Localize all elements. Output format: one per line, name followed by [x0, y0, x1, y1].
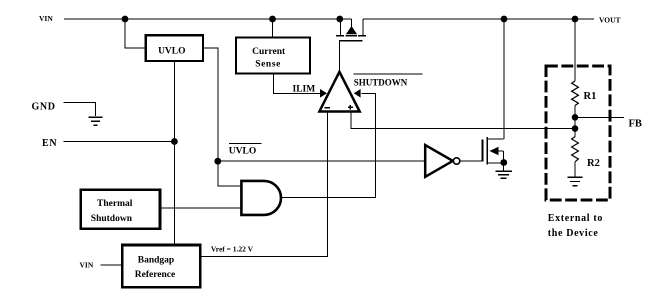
wire Current Sense output ILIM to comparator [274, 74, 321, 94]
svg-text:EN: EN [42, 138, 57, 149]
op-amp U1 current-limit comparator [319, 72, 360, 112]
svg-text:Thermal: Thermal [97, 199, 133, 209]
wire VIN rail left [64, 18, 352, 20]
node junction VIN to UVLO [122, 16, 129, 23]
svg-text:R2: R2 [587, 158, 600, 169]
label UVLO with overbar [229, 144, 262, 157]
node junction VIN to Current Sense [269, 16, 276, 23]
wire comparator noninverting input to FB divider [351, 112, 575, 129]
svg-text:UVLO: UVLO [229, 147, 256, 157]
svg-text:FB: FB [629, 118, 642, 129]
svg-text:Shutdown: Shutdown [91, 214, 133, 224]
svg-text:Current: Current [252, 47, 286, 57]
wire comparator inverting input to Vref [200, 112, 327, 257]
svg-text:Reference: Reference [135, 270, 175, 280]
svg-text:VIN: VIN [39, 14, 53, 23]
inverter U3 [425, 145, 460, 177]
ground symbol at NMOS source [495, 171, 512, 178]
node junction VOUT to NMOS drain [501, 16, 508, 23]
node junction VOUT to R1 [572, 16, 579, 23]
wire GND [64, 103, 96, 117]
wire VIN to Bandgap input [101, 264, 123, 266]
svg-text:External to: External to [548, 213, 603, 224]
wire SHUTDOWN net from AND output to comparator input [281, 93, 376, 197]
gate AND shutdown logic [241, 181, 281, 215]
wire VIN to UVLO input [125, 19, 146, 48]
label External to the Device [548, 213, 603, 239]
wire Thermal Shutdown output to AND gate bottom input [160, 207, 241, 209]
svg-text:Bandgap: Bandgap [138, 255, 174, 265]
transistor Q2 NMOS shutdown [483, 137, 504, 171]
svg-text:Vref = 1.22 V: Vref = 1.22 V [211, 244, 254, 253]
wire VIN to Current Sense input [272, 19, 274, 38]
label SHUTDOWN with overbar [354, 74, 423, 87]
ground symbol at R2 [568, 177, 583, 185]
wire R1 bottom to R2 top [574, 106, 576, 137]
svg-text:R1: R1 [584, 91, 597, 102]
node junction NMOS source-body [500, 159, 507, 166]
wire VOUT rail right [363, 18, 594, 20]
resistor R1 [572, 81, 579, 106]
node junction EN [171, 138, 178, 145]
svg-text:Sense: Sense [255, 59, 281, 69]
svg-text:SHUTDOWN: SHUTDOWN [354, 77, 408, 87]
svg-text:GND: GND [32, 102, 56, 113]
resistor R2 [572, 137, 579, 162]
wire inverter output to NMOS gate [460, 160, 483, 162]
wire FB [575, 116, 624, 118]
node junction UVLO-bar net [214, 158, 221, 165]
block Bandgap Reference [122, 245, 200, 287]
block Thermal Shutdown [81, 190, 160, 229]
wire EN [64, 141, 175, 143]
node junction VIN at pass transistor source [336, 16, 343, 23]
svg-text:ILIM: ILIM [293, 85, 316, 95]
svg-text:VIN: VIN [80, 261, 94, 270]
svg-text:the Device: the Device [548, 228, 599, 239]
wire pass transistor gate to comparator output [338, 41, 340, 72]
wire VOUT to NMOS drain [503, 19, 505, 139]
wire UVLO bottom output to Bandgap (EN net) [173, 61, 175, 245]
dashed box external divider [546, 66, 610, 200]
node junction FB upper [572, 114, 579, 121]
wire R2 bottom to ground [574, 162, 576, 177]
node junction FB lower [572, 125, 579, 132]
block UVLO U2 [146, 35, 203, 61]
transistor Q1 PMOS pass [336, 19, 366, 41]
svg-text:UVLO: UVLO [158, 46, 185, 56]
wire UVLO-bar net to inverter input [218, 160, 425, 162]
wire UVLO output down to AND gate top input [203, 48, 241, 186]
wire VOUT to R1 top [574, 19, 576, 81]
ground symbol at GND pin [88, 117, 102, 125]
svg-text:VOUT: VOUT [599, 15, 621, 24]
block Current Sense [236, 38, 310, 74]
